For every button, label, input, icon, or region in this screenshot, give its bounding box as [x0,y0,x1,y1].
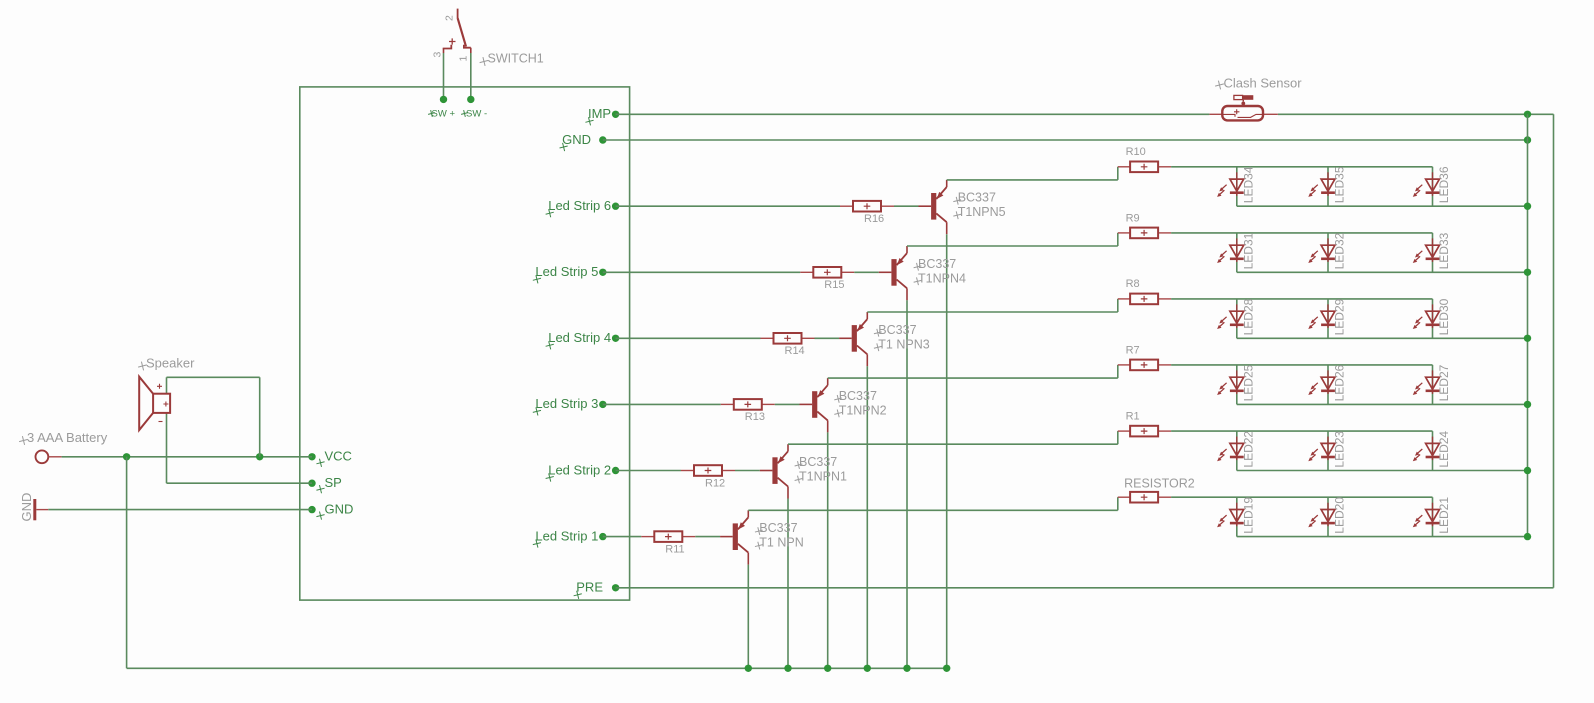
svg-text:R1: R1 [1126,410,1140,422]
resistor R14 [761,333,815,357]
junction LED row 4 / bus [1524,335,1531,342]
clash sensor (tilt switch) [1209,95,1277,120]
resistor R11 [641,531,695,555]
pin GND [559,132,607,152]
svg-text:T1NPN4: T1NPN4 [918,271,966,285]
pin Led Strip 3 [532,396,607,416]
svg-text:LED31: LED31 [1241,232,1255,269]
svg-text:SP: SP [325,475,342,490]
wire collector T1 NPN [748,509,1118,511]
pin Led Strip 6 [545,198,620,218]
svg-text:BC337: BC337 [958,191,996,205]
wire LED row 6 top rail [1171,166,1432,168]
wire LED row 2 bottom rail [1237,470,1528,472]
wire LED row 6 bottom rail [1237,205,1528,207]
svg-text:BC337: BC337 [839,389,877,403]
svg-text:R7: R7 [1126,344,1140,356]
wire collector T1NPN1 [788,443,1118,445]
transistor T1NPN5 (BC337) [919,180,1006,234]
svg-text:GND: GND [19,493,34,522]
LED LED25 [1217,364,1255,404]
svg-text:LED30: LED30 [1437,298,1451,335]
svg-text:Led Strip 5: Led Strip 5 [535,264,598,279]
LED LED32 [1308,232,1346,272]
label GND (rotated) [19,493,34,522]
pin GND (left) [308,501,353,520]
wire VCC net (battery to VCC pin) [62,456,312,458]
LED LED33 [1413,232,1451,272]
svg-text:LED25: LED25 [1241,364,1255,401]
LED LED31 [1217,232,1255,272]
wire LED row 3 bottom rail [1237,403,1528,405]
wire base T1NPN4 [854,271,879,273]
junction LED row 1 / bus [1524,533,1531,540]
pin SP (left) [308,475,342,494]
svg-text:3: 3 [432,52,444,58]
svg-text:T1NPN1: T1NPN1 [799,470,847,484]
LED LED30 [1413,298,1451,338]
wire emitter T1NPN1 [787,499,789,669]
wire switch pin1 to SW- [470,53,472,99]
svg-text:R16: R16 [864,213,884,225]
wire LED row 4 top rail [1171,298,1432,300]
junction emitter T1 NPN3 [864,665,871,672]
LED LED28 [1217,298,1255,338]
svg-text:1: 1 [458,56,470,62]
svg-text:2: 2 [444,15,456,21]
svg-text:3 AAA Battery: 3 AAA Battery [27,430,108,445]
LED LED36 [1413,166,1451,206]
svg-text:R8: R8 [1126,278,1140,290]
LED LED21 [1413,497,1451,537]
wire collector T1NPN5 [947,179,1118,181]
svg-text:VCC: VCC [325,449,352,464]
svg-text:LED24: LED24 [1437,431,1451,468]
label SWITCH1 [479,52,544,67]
junction emitter T1NPN5 [943,665,950,672]
pin Led Strip 4 [545,330,620,350]
wire IMP net [616,113,1210,115]
svg-text:T1NPN2: T1NPN2 [839,403,887,417]
ground symbol GND [35,499,49,520]
svg-text:IMP: IMP [588,106,611,121]
wire base T1NPN5 [894,205,919,207]
wire LED row 4 bottom rail [1237,337,1528,339]
wire emitter-rail drop [126,457,128,669]
LED LED26 [1308,364,1346,404]
LED LED34 [1217,166,1255,206]
svg-text:SW -: SW - [466,109,487,120]
wire speaker+ to VCC [167,376,260,378]
wire switch pin3 to SW+ [443,53,445,99]
resistor R9 [1118,212,1171,238]
svg-text:LED27: LED27 [1437,364,1451,401]
wire Led Strip 2 net [616,470,681,472]
svg-text:PRE: PRE [576,580,603,595]
resistor R16 [840,201,894,225]
svg-text:T1 NPN: T1 NPN [759,536,803,550]
battery pin (3 AAA Battery) [36,450,62,463]
resistor R15 [800,267,854,291]
wire collector T1NPN2 [828,377,1118,379]
resistor R13 [721,399,775,423]
svg-text:Led Strip 1: Led Strip 1 [535,528,598,543]
svg-text:R9: R9 [1126,212,1140,224]
wire emitter T1 NPN [747,565,749,669]
svg-text:Led Strip 3: Led Strip 3 [535,396,598,411]
svg-text:LED29: LED29 [1333,298,1347,335]
resistor R1 [1118,410,1171,436]
junction emitter T1NPN2 [824,665,831,672]
LED LED35 [1308,166,1346,206]
pin Led Strip 5 [532,264,607,284]
svg-text:LED22: LED22 [1241,431,1255,468]
svg-text:LED32: LED32 [1333,232,1347,269]
wire Led Strip 1 net [603,536,642,538]
svg-text:SWITCH1: SWITCH1 [488,52,544,66]
wire LED row 5 top rail [1171,232,1432,234]
transistor T1NPN1 (BC337) [760,444,847,498]
wire PRE net [616,587,1554,589]
svg-text:Speaker: Speaker [146,356,195,371]
svg-text:LED28: LED28 [1241,298,1255,335]
svg-text:GND: GND [325,501,354,516]
pin number 3 [432,52,444,58]
svg-text:Clash Sensor: Clash Sensor [1224,76,1303,91]
svg-text:BC337: BC337 [799,455,837,469]
transistor T1NPN4 (BC337) [879,246,966,300]
svg-text:LED19: LED19 [1241,497,1255,534]
svg-text:T1 NPN3: T1 NPN3 [878,337,929,351]
wire SP net [167,482,313,484]
svg-text:BC337: BC337 [918,257,956,271]
transistor T1 NPN3 (BC337) [839,312,930,366]
LED LED19 [1217,497,1255,537]
wire GND net to bus [603,139,1528,141]
LED LED24 [1413,431,1451,471]
pin number 1 [458,56,470,62]
transistor T1NPN2 (BC337) [800,378,887,432]
LED LED29 [1308,298,1346,338]
svg-text:LED33: LED33 [1437,232,1451,269]
module box (saber board) [300,87,630,600]
transistor T1 NPN (BC337) [720,510,804,564]
pin PRE [573,580,620,600]
wire LED row 2 top rail [1171,430,1432,432]
LED LED23 [1308,431,1346,471]
speaker symbol [139,377,170,484]
wire emitter T1 NPN3 [866,366,868,668]
wire base T1NPN1 [735,470,760,472]
svg-text:R10: R10 [1126,146,1146,158]
wire emitter T1NPN5 [946,234,948,668]
svg-text:LED35: LED35 [1333,166,1347,203]
pin number 2 [444,15,456,21]
wire GND net (left) [48,509,312,511]
pin SW- [460,96,487,120]
svg-text:LED23: LED23 [1333,431,1347,468]
pin VCC (left) [308,449,352,468]
svg-text:BC337: BC337 [878,323,916,337]
wire Led Strip 3 net [603,403,721,405]
switch SWITCH1 [443,9,471,53]
resistor R8 [1118,278,1171,304]
junction IMP/bus [1524,111,1531,118]
pin Led Strip 2 [545,462,620,482]
wire collector T1NPN4 [907,245,1118,247]
wire LED row 1 bottom rail [1237,536,1528,538]
wire Led Strip 6 net [616,205,840,207]
LED LED20 [1308,497,1346,537]
resistor RESISTOR2 [1118,477,1195,503]
svg-text:LED34: LED34 [1241,166,1255,203]
junction emitter T1NPN4 [903,665,910,672]
junction emitter T1 NPN [745,665,752,672]
svg-text:LED36: LED36 [1437,166,1451,203]
svg-text:R12: R12 [705,477,725,489]
wire LED row 3 top rail [1171,364,1432,366]
svg-text:RESISTOR2: RESISTOR2 [1124,477,1195,491]
wire collector T1 NPN3 [867,311,1118,313]
svg-text:LED21: LED21 [1437,497,1451,534]
junction emitter T1NPN1 [784,665,791,672]
LED LED22 [1217,431,1255,471]
LED LED27 [1413,364,1451,404]
wire base T1NPN2 [775,403,800,405]
svg-text:T1NPN5: T1NPN5 [958,205,1006,219]
wire emitter T1NPN2 [827,432,829,668]
wire LED row 5 bottom rail [1237,271,1528,273]
svg-text:R15: R15 [824,279,844,291]
resistor R10 [1118,146,1171,172]
junction LED row 5 / bus [1524,269,1531,276]
svg-text:Led Strip 6: Led Strip 6 [548,198,611,213]
junction LED row 2 / bus [1524,467,1531,474]
wire bottom emitter rail [127,667,947,669]
pin IMP [584,106,619,126]
label 3 AAA Battery [18,430,108,446]
svg-text:SW +: SW + [432,109,456,120]
svg-text:BC337: BC337 [759,521,797,535]
svg-text:Led Strip 2: Led Strip 2 [548,462,611,477]
junction battery/emitter-rail [123,453,130,460]
wire base T1 NPN3 [815,337,840,339]
svg-text:GND: GND [562,132,591,147]
pin Led Strip 1 [532,528,607,548]
wire right edge vertical (IMP to PRE) [1553,114,1555,588]
junction speaker+/VCC [256,453,263,460]
svg-text:R13: R13 [745,411,765,423]
wire LED row 1 top rail [1171,496,1432,498]
pin SW+ [427,96,455,120]
label Speaker [137,356,195,372]
junction LED row 6 / bus [1524,203,1531,210]
svg-text:LED26: LED26 [1333,364,1347,401]
junction GND/bus [1524,136,1531,143]
junction LED row 3 / bus [1524,401,1531,408]
svg-text:Led Strip 4: Led Strip 4 [548,330,611,345]
wire bus vertical [1527,114,1529,536]
label Clash Sensor [1214,76,1302,91]
wire emitter T1NPN4 [906,300,908,668]
wire Led Strip 4 net [616,337,761,339]
resistor R12 [681,465,735,489]
svg-text:R11: R11 [665,543,684,555]
wire Led Strip 5 net [603,271,801,273]
wire base T1 NPN [695,536,720,538]
svg-text:LED20: LED20 [1333,497,1347,534]
svg-text:R14: R14 [785,345,805,357]
resistor R7 [1118,344,1171,370]
